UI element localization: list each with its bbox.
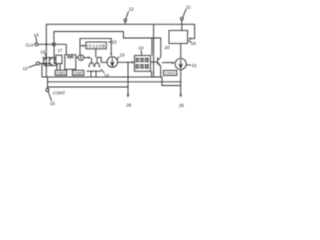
block 24 [134,56,150,72]
wire P over box22 to circle 23 [80,38,111,54]
circle C1 arrow [80,56,82,60]
box 17 [56,55,62,63]
junction dots on drop 26 [127,76,128,77]
box 18 [169,31,188,44]
node 11 terminal circle [180,17,183,20]
svg-text:25: 25 [179,103,185,108]
svg-text:CLK: CLK [26,43,34,48]
svg-text:21: 21 [192,63,198,68]
svg-text:11: 11 [186,5,191,10]
wire box18 to circle 21 [180,44,182,59]
svg-text:20: 20 [165,45,171,50]
svg-text:CONT3: CONT3 [165,72,176,76]
svg-text:IC110B: IC110B [87,43,105,48]
label 15 leader [48,92,51,101]
svg-text:18: 18 [191,41,197,46]
circle 21 current source [175,58,186,69]
wire top loop to box 18 [154,24,195,38]
wires box17 down to CONT1 [57,64,60,71]
wire 11 to box18 [181,20,183,30]
IC outline box [46,24,153,77]
label 19 leader [101,69,105,73]
wire C1 to Q19 [84,57,91,59]
wire Q19 bottom bus [87,70,102,72]
box 22 [86,42,106,49]
wire Q20 emitter drop [160,66,162,76]
circle 23 arrow [111,58,114,66]
junction dots Q19 [90,71,91,72]
waveform mark [67,56,73,58]
label 12 leader [126,11,129,19]
label 11 leader [183,9,187,18]
wire terminal 26 drop [127,62,129,96]
wire Q19 to circle 23 [97,58,107,63]
wire block24 bottom drop [151,71,153,76]
svg-text:23: 23 [120,52,125,57]
wire CLK [38,44,66,55]
block CONT2 [72,70,83,75]
svg-text:12: 12 [129,7,135,12]
wire terminal 25 drop [180,70,182,96]
wire A lower bus [48,81,181,83]
wire Q19 emitter drops [91,71,96,76]
box F (waveform box) [65,55,76,70]
wire circle 23 right [118,61,135,63]
node 12 circle [124,19,127,22]
svg-text:17: 17 [58,48,63,53]
wire step from box corner [154,77,181,86]
arrowhead terminal 26 [127,94,130,98]
terminal CLK circle [35,43,38,46]
svg-text:24: 24 [139,46,144,51]
transistor Q16 cluster [44,58,57,65]
transistor Q20 [158,57,161,66]
Q20 emitter arrowwire to circle 21 [162,62,174,64]
svg-text:CONT1: CONT1 [56,71,66,75]
wire 13 arrowhead [42,62,45,65]
terminal 13 circle [36,62,39,65]
wire 12 stub [124,22,126,25]
wire box F to C1 [76,57,78,59]
label 24 leader [140,50,142,55]
label 23 leader [116,57,119,60]
terminal CONT circle [46,89,49,92]
arrowhead into circle 23 top [110,53,112,56]
bubble on CLK wire [52,43,55,46]
circle 23 current source [107,57,118,68]
junction dots [151,72,152,73]
circle 21 arrow [179,60,182,68]
svg-text:CONT: CONT [53,91,66,96]
label 14 leader [35,37,36,43]
wire block24 to Q20 base [151,61,158,63]
wire W2 internal bus [54,32,161,58]
label 13 leader [28,64,36,67]
wire Q19 collector up to box 22 [95,49,97,58]
junction dots Q16 [43,57,44,58]
wire branch into box22 [80,45,85,47]
arrowhead into box22 left edge [83,44,86,47]
circle C1 [78,55,84,61]
svg-text:CONT2: CONT2 [73,71,83,75]
block CONT3 [164,70,177,75]
label 22 leader [108,41,111,43]
label 18 leader [189,40,192,42]
wire bubble down to cluster [53,46,55,59]
svg-text:14: 14 [34,32,40,37]
svg-text:13: 13 [23,66,29,71]
junction on left edge [45,43,47,45]
wire 13 branch down to bottom rail [42,64,46,78]
svg-text:26: 26 [126,102,132,107]
svg-text:22: 22 [112,39,118,44]
wire arrowhead into box 18 [188,37,191,40]
wire Q16 bottom bus [44,65,57,67]
svg-text:19: 19 [104,73,110,78]
terminal CONT drop [47,77,49,89]
arrowhead on wire [86,56,89,58]
block 24 text row1 [136,58,149,69]
arrowhead terminal 25 [179,94,182,98]
svg-text:15: 15 [50,101,56,106]
wire B lower bus [48,86,129,88]
wire branch to block 24 [151,38,153,56]
block 24 text speckle [136,58,149,69]
block CONT1 [55,70,66,75]
wire Q16 top bus [42,57,55,59]
transistor Q19 pair [89,58,100,68]
label 16 leader arrow [45,54,47,57]
junction dot on drop 25 [180,81,181,82]
label 21 leader [187,64,192,66]
wire 13 [40,63,49,65]
